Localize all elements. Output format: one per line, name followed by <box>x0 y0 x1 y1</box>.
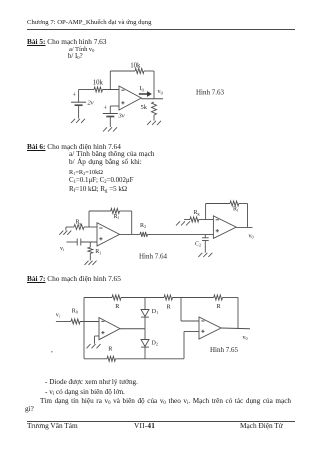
svg-text:I0: I0 <box>140 85 144 92</box>
svg-text:Hình 7.64: Hình 7.64 <box>139 253 168 261</box>
svg-text:+: + <box>72 92 76 99</box>
svg-text:Rg: Rg <box>194 210 200 216</box>
svg-text:R1: R1 <box>95 249 101 255</box>
svg-text:vi: vi <box>56 312 61 318</box>
svg-text:D2: D2 <box>152 341 158 347</box>
svg-text:vi: vi <box>60 246 65 252</box>
svg-text:Rf: Rf <box>114 214 120 220</box>
svg-text:5k: 5k <box>141 104 148 111</box>
svg-text:Hình 7.63: Hình 7.63 <box>196 89 225 97</box>
svg-text:2v: 2v <box>88 100 94 107</box>
svg-text:+: + <box>103 104 107 111</box>
svg-text:Hình 7.65: Hình 7.65 <box>210 346 239 354</box>
svg-text:v0: v0 <box>249 234 254 240</box>
svg-text:3v: 3v <box>118 113 125 120</box>
svg-text:R: R <box>167 304 172 311</box>
svg-text:R: R <box>108 346 113 353</box>
svg-text:C2: C2 <box>195 242 201 248</box>
svg-text:10k: 10k <box>93 79 104 86</box>
svg-text:Rg: Rg <box>76 220 82 226</box>
svg-text:Rf: Rf <box>233 206 239 212</box>
svg-text:R2: R2 <box>140 223 146 229</box>
svg-text:R0: R0 <box>72 308 78 314</box>
svg-text:v0: v0 <box>158 88 163 95</box>
svg-text:R: R <box>115 303 120 310</box>
svg-text:D1: D1 <box>152 309 158 315</box>
svg-text:v0: v0 <box>243 335 248 341</box>
svg-text:R: R <box>217 303 222 310</box>
svg-text:10k: 10k <box>130 62 141 69</box>
